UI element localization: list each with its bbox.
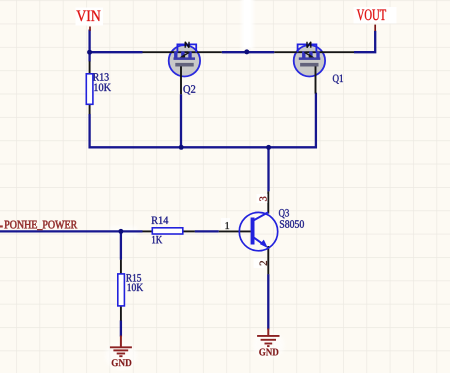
wire gate rail horizontal: [90, 146, 316, 148]
pin number 3 (Q3 collector): [257, 194, 268, 203]
pin R13 bottom: [89, 104, 91, 114]
ground halo left: [105, 342, 137, 370]
pin R13 top: [89, 61, 91, 74]
ground GND (right, under Q3): [257, 329, 279, 356]
wire R14 to Q3 base: [195, 230, 219, 232]
wire junction to R13 top: [88, 52, 90, 61]
junction dot PONHE / R15: [118, 229, 123, 234]
wire between Q2 and Q1: [222, 51, 274, 53]
junction dot gate rail / Q2 gate: [179, 145, 184, 150]
port VIN: [76, 8, 104, 31]
pin R15 top: [120, 260, 122, 275]
net label PONHE_POWER: [4, 221, 77, 230]
wire top rail left segment: [90, 51, 143, 53]
pin Q3 base: [219, 230, 251, 232]
port VOUT: [354, 7, 397, 31]
wire rail down to Q3 collector: [267, 147, 269, 191]
wire R15 bottom to GND: [120, 320, 122, 336]
pin number 1 (Q3 base): [221, 218, 230, 229]
pin number 2 (Q3 emitter): [254, 259, 267, 269]
resistor R14: [152, 217, 183, 244]
resistor R15: [118, 274, 143, 306]
pin R14 left: [143, 230, 153, 232]
pin Q3 collector: [267, 191, 269, 213]
left edge red mark artifact: [0, 225, 3, 227]
wire Q1 to VOUT: [354, 31, 375, 52]
transistor Q1 (P-MOSFET): [274, 42, 354, 94]
wire R13 bottom to gate rail: [88, 114, 90, 149]
pin Q3 emitter: [267, 246, 269, 274]
ground halo right: [253, 331, 285, 359]
wire Q2 gate down to rail: [180, 94, 182, 147]
junction dot gate rail / Q3 collector: [266, 145, 271, 150]
transistor Q2 (P-MOSFET): [143, 42, 222, 95]
junction dot VIN junction: [87, 50, 92, 55]
wire VIN drop: [88, 30, 90, 53]
wire rail up to Q1 gate: [315, 93, 317, 149]
junction dot top rail junction: [244, 49, 249, 54]
resistor R13: [86, 73, 111, 104]
pin R14 right: [183, 230, 195, 232]
pin R15 bottom: [120, 306, 122, 321]
ground GND (left, under R15): [110, 336, 132, 367]
transistor Q3 (NPN S8050): [239, 209, 304, 251]
white cursor strip artifact: [110, 0, 254, 237]
wire Q3 emitter to GND: [267, 274, 269, 329]
wire PONHE_POWER horizontal: [0, 230, 143, 232]
wire junction down to R15: [120, 231, 122, 259]
